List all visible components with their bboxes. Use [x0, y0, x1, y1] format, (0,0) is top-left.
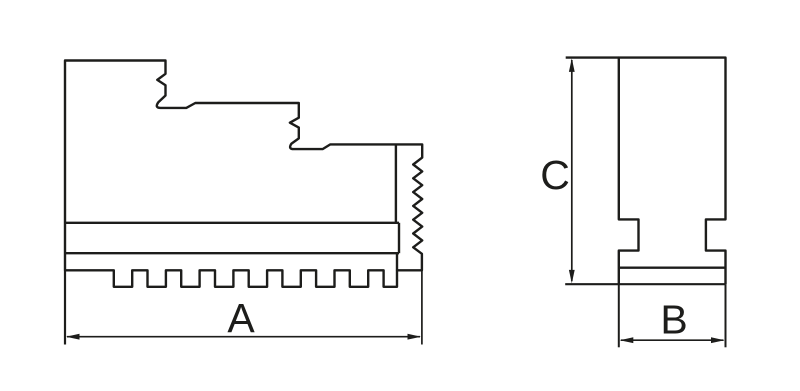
dimension B right extension line: [725, 284, 727, 347]
svg-text:B: B: [660, 297, 687, 343]
svg-text:C: C: [540, 152, 570, 198]
dimension B left extension line: [618, 284, 620, 347]
side-view guide rail band bottom line: [65, 252, 399, 254]
side-view jaw outline: [65, 61, 422, 287]
side-view guide rail band top line: [65, 222, 399, 224]
dimension C top arrowhead: [569, 58, 575, 72]
svg-text:A: A: [227, 295, 255, 341]
front-view base top line: [619, 267, 726, 269]
dimension A left arrowhead: [66, 334, 80, 340]
dimension C bottom arrowhead: [569, 270, 575, 284]
dimension A right arrowhead: [408, 334, 422, 340]
dimension A line: [67, 336, 420, 338]
dimension B right arrowhead: [711, 337, 725, 343]
dimension B left arrowhead: [620, 337, 634, 343]
dimension C bottom extension line / base bottom line: [565, 283, 725, 285]
dimension A right extension line: [421, 270, 423, 344]
side-view vertical below band: [396, 253, 398, 270]
dimension C line: [571, 60, 573, 281]
dimension B line: [621, 339, 724, 341]
dimension A left extension line: [64, 270, 66, 344]
side-view guide rail band right end: [398, 223, 400, 253]
dimension C top extension line (top edge extended): [566, 56, 619, 58]
front-view jaw outline: [619, 58, 726, 285]
side-view internal vertical (body/back boundary): [395, 145, 397, 223]
